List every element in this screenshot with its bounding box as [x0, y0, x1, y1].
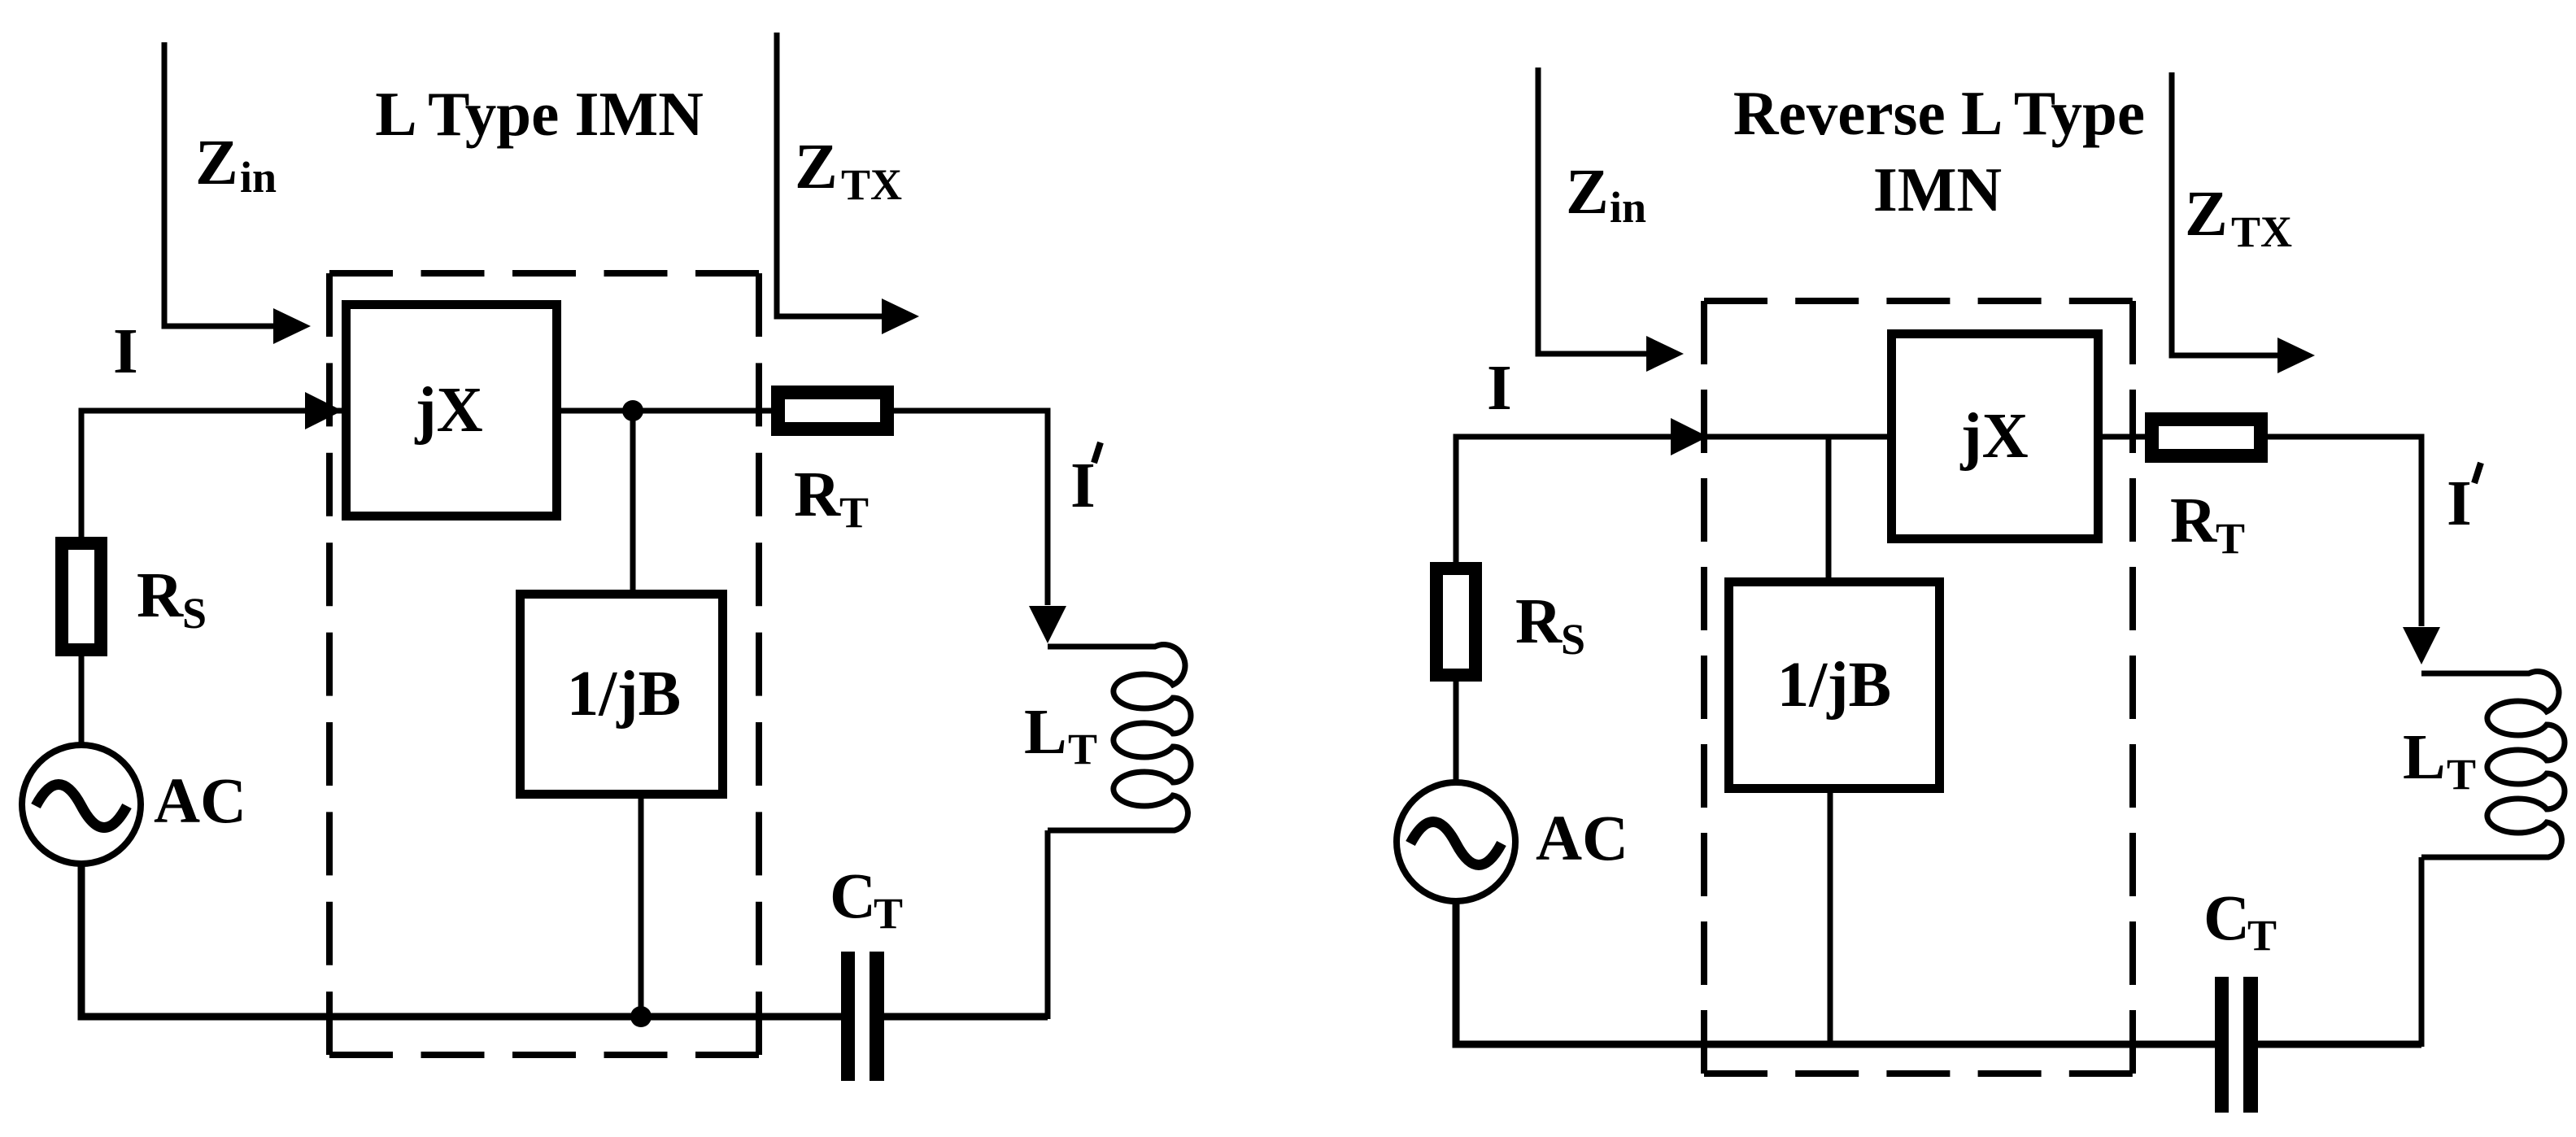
wire: capacitor to inductor branch on bottom rail (right) — [2258, 1041, 2421, 1048]
AC source sine symbol (left) — [36, 785, 127, 828]
wire: R_T to inductor top bend (left) — [894, 411, 1048, 605]
svg-text:in: in — [240, 153, 277, 202]
wire: source top rail with left corner (left) — [81, 411, 342, 538]
junction node at jX output (left) — [622, 400, 643, 421]
svg-text:R: R — [137, 560, 184, 631]
svg-text:T: T — [1068, 725, 1097, 773]
node Z_in pointer line (right) — [1538, 68, 1648, 354]
svg-text:L: L — [2403, 722, 2446, 793]
wire: source top rail with left corner (right) — [1456, 437, 1887, 567]
shunt element 1/jB box (left) — [521, 595, 723, 795]
wire: R_S to AC source (right) — [1454, 682, 1459, 783]
svg-text:S: S — [182, 589, 207, 638]
capacitor C_T plate 1 (right) — [2215, 977, 2229, 1113]
svg-text:R: R — [794, 460, 841, 530]
svg-text:TX: TX — [2231, 207, 2292, 256]
resistor R_T (right) — [2152, 420, 2261, 456]
svg-text:1/jB: 1/jB — [567, 659, 681, 730]
svg-text:AC: AC — [1536, 804, 1628, 874]
resistor R_T (left) — [778, 393, 887, 429]
shunt element 1/jB box (right) — [1729, 582, 1940, 789]
svg-text:1/jB: 1/jB — [1777, 650, 1891, 721]
wire: AC source to bottom rail and bottom rail to capacitor (left) — [81, 863, 841, 1017]
node Z_in pointer line (left) — [164, 42, 275, 326]
capacitor C_T plate 1 (left) — [841, 952, 855, 1081]
svg-text:AC: AC — [154, 766, 246, 837]
svg-text:I: I — [2447, 468, 2472, 539]
resistor R_S (left) — [62, 543, 101, 650]
svg-text:IMN: IMN — [1873, 155, 2002, 224]
svg-text:L: L — [1024, 697, 1067, 768]
svg-text:R: R — [1515, 586, 1563, 657]
AC source circle (right) — [1397, 782, 1515, 901]
capacitor C_T plate 2 (right) — [2243, 977, 2258, 1113]
wire: capacitor to inductor branch on bottom rail (left) — [884, 1013, 1048, 1021]
series element jX box (left) — [347, 305, 557, 516]
inductor L_T (left) — [1048, 645, 1191, 830]
svg-text:T: T — [2247, 911, 2277, 960]
svg-text:T: T — [839, 488, 869, 537]
svg-text:jX: jX — [1959, 401, 2028, 472]
svg-text:C: C — [830, 861, 876, 932]
AC source sine symbol (right) — [1410, 822, 1502, 865]
wire: junction to 1/jB box (left) — [630, 411, 636, 590]
svg-text:in: in — [1610, 183, 1646, 232]
wire: R_T to inductor top bend (right) — [2268, 437, 2421, 626]
svg-text:T: T — [2447, 750, 2476, 799]
svg-text:S: S — [1561, 615, 1585, 664]
series element jX box (right) — [1892, 334, 2099, 539]
wire: inductor bottom lead riser (right) — [2419, 857, 2425, 1047]
svg-text:I: I — [113, 316, 138, 387]
svg-text:Z: Z — [795, 132, 838, 203]
AC source circle (left) — [22, 745, 141, 864]
node Z_in pointer arrowhead (right) — [1646, 336, 1684, 372]
wire: top rail tap to 1/jB box (right) — [1826, 437, 1832, 577]
IMN boundary dashed box (right) — [1704, 301, 2133, 1074]
svg-text:I: I — [1487, 353, 1512, 424]
node Z_TX pointer arrowhead (left) — [882, 298, 919, 334]
capacitor C_T plate 2 (left) — [870, 952, 884, 1081]
arrowhead current I' down (right) — [2403, 627, 2440, 664]
svg-text:Z: Z — [195, 128, 238, 198]
svg-text:L Type IMN: L Type IMN — [375, 79, 704, 149]
svg-text:Z: Z — [2185, 179, 2228, 250]
svg-text:Z: Z — [1566, 157, 1609, 228]
node Z_TX pointer arrowhead (right) — [2277, 338, 2315, 373]
resistor R_S (right) — [1436, 568, 1475, 675]
junction node on bottom rail (left) — [630, 1006, 652, 1027]
wire: jX output to R_T (left) — [561, 408, 771, 414]
arrowhead current I' down (left) — [1029, 606, 1066, 643]
node Z_in pointer arrowhead (left) — [273, 308, 311, 344]
svg-text:T: T — [2216, 514, 2245, 563]
node Z_TX pointer line (right) — [2172, 72, 2279, 355]
wire: 1/jB box to bottom rail (left) — [639, 799, 644, 1017]
svg-text:C: C — [2203, 883, 2250, 954]
svg-text:Reverse L Type: Reverse L Type — [1733, 78, 2145, 148]
svg-text:jX: jX — [414, 375, 482, 446]
wire: 1/jB box to bottom rail (right) — [1828, 793, 1833, 1044]
wire: R_S to AC source (left) — [79, 656, 85, 746]
wire: jX output to R_T (right) — [2103, 434, 2145, 440]
svg-text:TX: TX — [841, 160, 902, 209]
arrowhead current I into IMN (right) — [1671, 418, 1708, 455]
wire: inductor bottom lead riser (left) — [1045, 830, 1051, 1019]
wire: AC source to bottom rail and bottom rail to capacitor (right) — [1456, 900, 2215, 1044]
svg-text:T: T — [874, 889, 903, 938]
arrowhead current I into jX (left) — [305, 392, 342, 429]
IMN boundary dashed box (left) — [329, 273, 759, 1055]
inductor L_T (right) — [2421, 672, 2565, 857]
node Z_TX pointer line (left) — [777, 33, 883, 316]
svg-text:R: R — [2170, 486, 2217, 556]
